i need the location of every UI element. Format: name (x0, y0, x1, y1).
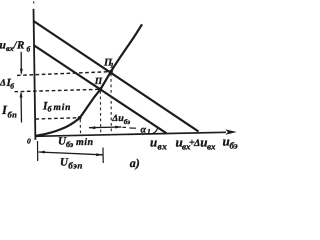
svg-text:0: 0 (27, 137, 31, 146)
x-axis (35, 132, 226, 136)
svg-text:б: б (10, 82, 14, 91)
svg-text:α: α (141, 124, 147, 135)
label I_b min (42, 101, 71, 114)
load line A (u_vx + delta u_vx) (34, 21, 199, 132)
label alpha1 (141, 124, 151, 136)
label 0 at origin (27, 137, 31, 146)
svg-text:а): а) (130, 156, 140, 170)
svg-text:б: б (27, 45, 31, 54)
y-axis (34, 9, 36, 140)
delta U_be horizontal double arrow (89, 126, 122, 129)
label U_be min (58, 136, 94, 150)
svg-text:вх: вх (207, 142, 216, 152)
bottom double arrow U_be min / U_bep (39, 152, 103, 155)
label I_bp (1, 103, 17, 120)
label u_be axis (223, 134, 238, 151)
angle arc alpha1 (153, 128, 158, 133)
point P1 dot (109, 70, 113, 74)
label P (94, 77, 103, 87)
svg-text:бэ: бэ (124, 118, 130, 126)
bottom dimension left tick (37, 141, 39, 161)
svg-text:1: 1 (110, 61, 114, 69)
label u_vx/R_b (0, 40, 31, 54)
input characteristic curve (36, 24, 142, 136)
dashed vertical from P1 (110, 74, 112, 136)
svg-text:min: min (54, 103, 72, 113)
svg-text:б: б (48, 105, 53, 114)
svg-text:бэ: бэ (66, 140, 74, 149)
y-axis arrow tip (33, 1, 35, 4)
svg-text:бэп: бэп (68, 161, 83, 171)
label delta u_be (111, 113, 130, 126)
small dashes toward alpha1 (123, 126, 127, 128)
svg-text:Δ: Δ (111, 114, 118, 124)
svg-text:Δ: Δ (0, 79, 6, 89)
dot on curve at I_b min (78, 116, 82, 120)
label u_vx + delta u_vx (176, 135, 217, 152)
dashed horizontal to P (15, 89, 101, 91)
svg-text:бэ: бэ (230, 141, 238, 151)
bottom dimension right tick (102, 148, 104, 164)
svg-text:R: R (16, 40, 24, 52)
load line B (u_vx) (34, 46, 166, 134)
svg-text:вх: вх (6, 44, 14, 53)
svg-text:Δ: Δ (193, 138, 200, 149)
svg-text:вх: вх (158, 143, 168, 153)
dashed vertical from P (99, 91, 101, 135)
label delta I_b (0, 77, 14, 91)
svg-text:бп: бп (8, 110, 18, 120)
label U_bep (60, 157, 83, 171)
dashed vertical from curve dot (79, 120, 81, 136)
svg-text:П: П (94, 77, 103, 87)
label a) figure tag (130, 156, 140, 170)
label P1 (103, 58, 114, 70)
dashed horizontal I_b min (36, 118, 80, 119)
delta I_b dimension: up arrow (20, 93, 23, 123)
x-axis arrowhead (226, 129, 237, 134)
label u_vx (150, 135, 167, 153)
point P dot (98, 87, 102, 91)
delta I_b dimension: down arrow (20, 52, 22, 73)
svg-text:min: min (76, 137, 94, 148)
dashed horizontal to P1 (17, 72, 111, 76)
svg-text:u: u (150, 135, 157, 150)
